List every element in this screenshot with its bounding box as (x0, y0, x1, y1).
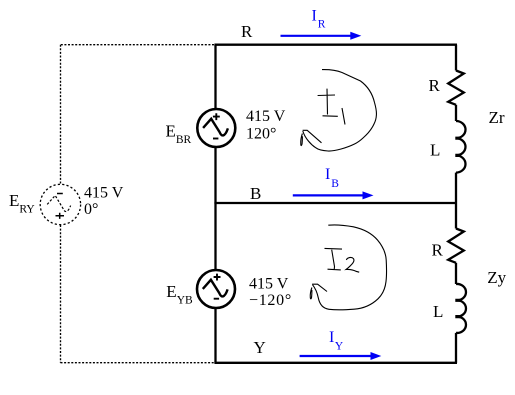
svg-text:0°: 0° (84, 201, 98, 218)
current arrow I_Y (300, 352, 382, 360)
inductor L top cusp nubs (455, 138, 460, 155)
wire left vertical segment E_BR to E_YB (214, 148, 216, 271)
source E_RY (dotted phantom) (40, 184, 80, 224)
handwritten I1 (318, 89, 345, 125)
svg-text:−120°: −120° (249, 292, 292, 309)
svg-text:Zr: Zr (489, 108, 505, 127)
wire right vertical between Zr and node B (455, 173, 457, 229)
svg-text:415 V: 415 V (84, 185, 124, 202)
svg-text:Y: Y (335, 341, 344, 353)
current arrow I_B (293, 191, 374, 199)
wire middle horizontal (node B line) (214, 202, 457, 204)
inductor L bottom cusp nubs (455, 300, 460, 316)
hand-drawn mesh loop arc I2 (313, 225, 387, 310)
wire left dotted vertical upper (60, 45, 62, 184)
source E_BR (197, 109, 235, 147)
wire right vertical bottom lead (455, 333, 457, 363)
svg-text:I: I (325, 166, 330, 183)
svg-text:L: L (433, 302, 443, 321)
svg-text:B: B (250, 184, 261, 203)
svg-text:R: R (429, 76, 441, 95)
resistor R (bottom, in Zy) (448, 229, 464, 263)
wire bottom horizontal (node Y line) (214, 362, 457, 364)
hand-drawn arrowhead I1 (301, 130, 322, 145)
svg-text:R: R (432, 240, 444, 259)
hand-drawn mesh loop arc I1 (303, 70, 377, 151)
svg-text:B: B (331, 178, 339, 190)
hand-drawn arrowhead I2 (310, 284, 327, 299)
svg-text:I: I (329, 329, 334, 346)
svg-text:R: R (318, 19, 326, 31)
wire left dotted vertical lower (60, 225, 62, 363)
resistor R (top, in Zr) (448, 71, 464, 105)
wire left vertical segment above E_BR (214, 45, 216, 109)
svg-text:Zy: Zy (487, 268, 506, 287)
svg-text:I: I (312, 8, 317, 25)
source E_YB (197, 270, 235, 308)
wire right vertical between R and L (Zy) (455, 263, 457, 284)
svg-text:415 V: 415 V (246, 108, 286, 125)
wire right vertical top lead (455, 45, 457, 71)
wire bottom dotted (E_RY phantom) (61, 362, 215, 364)
svg-text:Y: Y (254, 338, 266, 357)
inductor L (bottom, in Zy) (456, 284, 466, 333)
svg-text:R: R (241, 22, 253, 41)
svg-text:415 V: 415 V (249, 276, 289, 293)
wire top dotted (E_RY phantom) (61, 44, 215, 46)
inductor L (top, in Zr) (456, 121, 466, 173)
svg-text:L: L (430, 141, 440, 160)
wire left vertical segment below E_YB (214, 309, 216, 363)
wire top horizontal (node R line) (214, 44, 457, 46)
handwritten I2 (325, 248, 360, 272)
svg-text:120°: 120° (246, 126, 276, 143)
wire right vertical between R and L (Zr) (455, 105, 457, 121)
current arrow I_R (281, 32, 362, 40)
